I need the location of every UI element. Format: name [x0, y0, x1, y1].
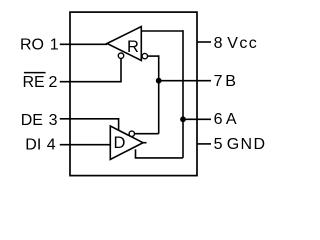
wire pin1 RO to R apex: [60, 43, 107, 45]
bubble R input B inverting: [142, 53, 147, 58]
bubble RE enable on R bottom edge: [118, 53, 123, 58]
junction dot net A pin6: [180, 116, 186, 122]
svg-text:6: 6: [214, 111, 223, 128]
wire DE vertical drop to D top edge: [118, 118, 120, 131]
driver U-D triangle: [110, 126, 143, 160]
wire pin8 Vcc: [197, 41, 211, 43]
svg-text:D: D: [113, 134, 125, 152]
svg-text:1: 1: [50, 36, 59, 53]
svg-text:3: 3: [49, 112, 58, 129]
wire RE vertical to enable bubble: [120, 58, 122, 82]
wire R bubble to net B: [148, 55, 159, 57]
svg-text:DI: DI: [25, 136, 41, 153]
wire pin7 B: [159, 80, 211, 82]
wire pin2 RE horizontal: [60, 81, 121, 83]
wire net A vertical: [182, 30, 184, 158]
bubble D output B inverting: [129, 131, 134, 136]
svg-text:GND: GND: [227, 136, 267, 153]
wire net B vertical: [158, 55, 160, 133]
svg-text:5: 5: [214, 136, 223, 153]
svg-text:DE: DE: [21, 112, 43, 129]
wire D output A drop from bottom edge: [135, 149, 137, 158]
wire pin6 A: [183, 118, 211, 120]
svg-text:2: 2: [49, 74, 58, 91]
svg-text:R: R: [127, 38, 139, 56]
wire D apex stub: [143, 142, 147, 144]
wire pin4 DI to D input edge: [60, 144, 111, 146]
svg-text:7: 7: [214, 73, 223, 90]
svg-text:B: B: [225, 73, 236, 90]
IC body outline: [70, 12, 197, 176]
wire D bubble to net B: [135, 133, 159, 135]
overline RE: [24, 72, 46, 74]
svg-text:RE: RE: [23, 74, 45, 91]
svg-text:4: 4: [47, 136, 56, 153]
wire D output A bottom horizontal: [135, 157, 183, 159]
svg-text:A: A: [226, 111, 237, 128]
wire pin3 DE horizontal: [60, 118, 119, 120]
receiver U-R triangle: [107, 27, 141, 61]
svg-text:8: 8: [214, 35, 223, 52]
svg-text:RO: RO: [20, 36, 44, 53]
junction dot net B pin7: [156, 78, 162, 84]
wire pin5 GND: [197, 143, 211, 145]
wire R input A horizontal top: [141, 30, 183, 32]
svg-text:Vcc: Vcc: [227, 35, 258, 52]
